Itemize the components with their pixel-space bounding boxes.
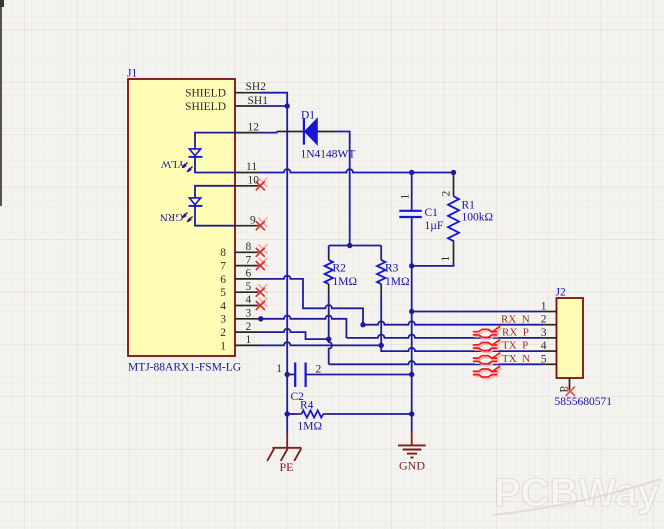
wire SH2 to shield net — [260, 93, 287, 106]
diode D1 — [304, 118, 317, 144]
LED YLW inside J1 — [160, 133, 235, 173]
pin 10 — [235, 175, 260, 187]
svg-text:1N4148WT: 1N4148WT — [301, 149, 356, 161]
pin 7 — [220, 254, 260, 272]
no-connect X pin 8 — [256, 244, 267, 256]
svg-text:MTJ-88ARX1-FSM-LG: MTJ-88ARX1-FSM-LG — [128, 362, 241, 374]
wire pin3 to RX_P jog (hops over shield and R2 verticals) — [261, 315, 347, 337]
svg-text:YLW: YLW — [160, 158, 185, 170]
node RX_N corner junction — [360, 322, 365, 327]
svg-text:3: 3 — [541, 327, 547, 339]
resistor R2 — [325, 246, 333, 297]
J2 pin P bottom — [559, 378, 571, 393]
svg-text:4: 4 — [220, 300, 226, 312]
svg-text:2: 2 — [220, 327, 226, 339]
svg-text:1: 1 — [220, 340, 226, 352]
svg-text:2: 2 — [246, 321, 252, 333]
ground GND symbol — [398, 432, 426, 458]
node pin1/R3 junction — [379, 343, 384, 348]
svg-text:4: 4 — [541, 340, 547, 352]
svg-text:RX P: RX P — [502, 327, 529, 339]
pin 1 — [220, 334, 260, 352]
connector J2 body — [557, 298, 584, 378]
J2 pin 1 — [541, 301, 557, 313]
node C2 right junction — [409, 372, 414, 377]
svg-text:12: 12 — [248, 121, 260, 133]
svg-text:TX P: TX P — [502, 340, 528, 352]
svg-text:SH1: SH1 — [248, 95, 269, 107]
node R4 right junction — [409, 411, 414, 416]
wire D1 cathode down to R2/R3 row — [334, 132, 350, 246]
node row1 junction on GND vertical — [409, 309, 414, 314]
node D1 net junction on R2/R3 row — [347, 243, 352, 248]
svg-text:7: 7 — [220, 261, 226, 273]
wire SH1 stub to junction — [260, 105, 287, 107]
svg-text:PE: PE — [280, 460, 294, 474]
differential pair directive TX_P — [473, 340, 502, 353]
svg-text:5: 5 — [220, 287, 226, 299]
svg-text:6: 6 — [246, 268, 252, 280]
pin 4 — [220, 294, 260, 312]
svg-text:7: 7 — [246, 254, 252, 266]
svg-text:5855680571: 5855680571 — [555, 396, 613, 408]
J2 pin 3 — [541, 327, 557, 339]
svg-text:3: 3 — [220, 314, 226, 326]
node pin2/R2 junction — [326, 336, 331, 341]
svg-text:1MΩ: 1MΩ — [298, 421, 323, 433]
J2 pin 2 — [541, 314, 557, 326]
svg-text:1µF: 1µF — [425, 220, 444, 232]
svg-text:R3: R3 — [385, 263, 399, 275]
svg-text:4: 4 — [246, 294, 252, 306]
svg-text:R4: R4 — [300, 400, 314, 412]
capacitor C1 — [399, 173, 422, 266]
svg-text:10: 10 — [248, 175, 260, 187]
pin 9 — [235, 214, 260, 226]
no-connect X pin 5 — [256, 284, 267, 297]
svg-text:1MΩ: 1MΩ — [333, 276, 358, 288]
wire pin1 to R3 bottom junction (hop over shield vertical) — [260, 342, 381, 345]
pin 2 — [220, 321, 260, 339]
sheet edge line — [0, 0, 4, 206]
connector J1 body — [128, 79, 235, 356]
PCBWay watermark — [492, 471, 661, 515]
node pin3 junction — [258, 316, 263, 321]
resistor R3 — [377, 246, 385, 297]
no-connect X on J2 pin P — [566, 387, 576, 397]
svg-text:SH2: SH2 — [246, 81, 267, 93]
resistor R1 — [412, 173, 459, 266]
svg-text:5: 5 — [246, 281, 252, 293]
svg-text:1: 1 — [440, 256, 452, 262]
wire shield vertical net — [286, 106, 288, 434]
node shield junction — [285, 103, 290, 108]
svg-text:8: 8 — [246, 241, 252, 253]
pin 3 — [220, 308, 260, 326]
wire pin6 to RX_N corner (hops over shield and R2 verticals) — [260, 276, 363, 325]
differential pair directive below TX_N — [473, 366, 502, 379]
svg-text:R2: R2 — [333, 263, 347, 275]
wire pin2 to R2 bottom junction (hop over shield vertical) — [260, 329, 329, 339]
node R4 left junction — [285, 411, 290, 416]
svg-text:1: 1 — [541, 301, 547, 313]
pin 12 — [235, 121, 260, 133]
node R1 top junction — [451, 170, 456, 175]
svg-text:RX N: RX N — [501, 313, 530, 325]
wire pin12 to D1 — [260, 132, 277, 133]
wire R3 bottom down to pin1 row junction — [380, 297, 382, 346]
differential pair directive RX_P — [473, 326, 502, 339]
pin 5 — [220, 281, 260, 299]
svg-text:6: 6 — [220, 274, 226, 286]
svg-text:11: 11 — [246, 161, 257, 173]
svg-text:GND: GND — [399, 459, 425, 473]
svg-text:8: 8 — [220, 247, 226, 259]
svg-text:SHIELD: SHIELD — [185, 101, 226, 113]
J2 pin 4 — [541, 340, 557, 352]
pin SH1 (SHIELD) — [185, 95, 268, 113]
wire R2 top to R3 top row — [329, 245, 382, 247]
ground PE symbol — [267, 434, 301, 461]
svg-text:TX N: TX N — [502, 353, 530, 365]
no-connect X pin 9 — [256, 218, 267, 231]
wire R2 bottom to pin2 junction and down to TX_N row (hop over pin1 row) — [329, 297, 332, 365]
node C2 left junction — [285, 372, 290, 377]
pin 8 — [220, 241, 260, 259]
svg-text:100kΩ: 100kΩ — [462, 212, 494, 224]
wire row1 to J2 pin1 — [412, 311, 543, 313]
svg-text:2: 2 — [316, 364, 322, 376]
svg-text:SHIELD: SHIELD — [185, 88, 226, 100]
svg-text:2: 2 — [441, 191, 453, 197]
svg-text:PCBWay: PCBWay — [494, 471, 660, 515]
svg-text:1: 1 — [400, 194, 412, 200]
svg-text:1: 1 — [276, 363, 282, 375]
node C1 bottom junction — [409, 263, 414, 268]
wire C1 bottom down to GND — [411, 266, 413, 432]
no-connect X pin 10 — [256, 178, 267, 191]
svg-text:J2: J2 — [556, 287, 566, 299]
pin 11 — [235, 161, 260, 173]
svg-text:R1: R1 — [462, 200, 476, 212]
svg-text:C1: C1 — [425, 207, 439, 219]
resistor R4 — [287, 410, 412, 417]
pin 6 — [220, 268, 260, 286]
capacitor C2 — [287, 363, 412, 388]
svg-text:5: 5 — [541, 353, 547, 365]
diode D1 pin anode — [277, 131, 304, 133]
svg-text:J1: J1 — [127, 68, 137, 80]
node C1 top junction — [409, 170, 414, 175]
wire RX_P row to J2 pin3 (hops over R3 and GND verticals) — [346, 335, 542, 338]
LED GRN inside J1 — [160, 186, 235, 226]
no-connect X pin 4 — [256, 298, 267, 311]
svg-text:2: 2 — [541, 314, 547, 326]
wire RX_N row to J2 pin2 (hops over R3 and GND verticals) — [363, 321, 543, 324]
pin SH2 (SHIELD) — [185, 81, 266, 99]
J2 pin 5 — [541, 353, 557, 365]
svg-text:1: 1 — [246, 334, 252, 346]
differential pair directive TX_N — [473, 353, 502, 366]
wire TX_N row to J2 pin5 (hop over GND vertical) — [329, 361, 543, 364]
svg-text:1MΩ: 1MΩ — [385, 276, 410, 288]
svg-text:3: 3 — [246, 308, 252, 320]
svg-text:D1: D1 — [301, 110, 315, 122]
svg-text:GRN: GRN — [160, 211, 183, 223]
wire pin11 row to C1/R1 (hops at shield and D1 verticals) — [260, 169, 454, 172]
diode D1 pin cathode — [317, 131, 333, 133]
wire R3 junction down to TX_P row to J2 pin4 (hop over GND vertical) — [381, 345, 542, 351]
svg-text:9: 9 — [250, 214, 256, 226]
no-connect X pin 7 — [256, 258, 267, 271]
